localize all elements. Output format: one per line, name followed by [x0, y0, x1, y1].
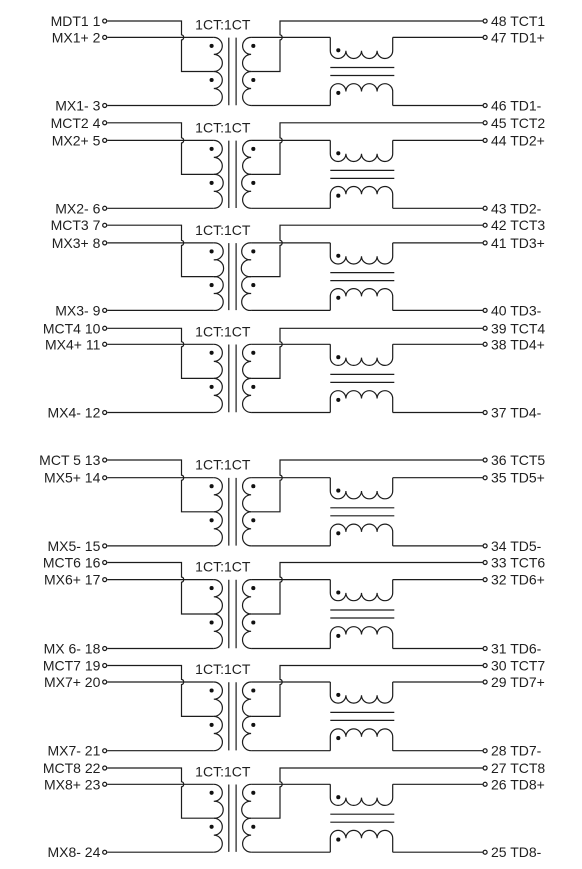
polarity dot secondary upper: [251, 147, 255, 151]
polarity dot secondary upper: [251, 688, 255, 692]
svg-text:33 TCT6: 33 TCT6: [491, 555, 545, 571]
wire pin 12 to primary winding end: [107, 412, 214, 414]
wire choke lower to pin 28: [393, 750, 483, 752]
transformer T4 secondary winding upper half: [243, 344, 252, 378]
choke L4 lower winding: [330, 391, 392, 413]
polarity dot choke lower: [336, 194, 340, 198]
transformer T2 secondary winding lower half: [242, 174, 251, 208]
svg-text:47 TD1+: 47 TD1+: [491, 29, 545, 45]
terminal pin 4: [103, 121, 107, 125]
wire secondary top to choke upper winding: [251, 579, 330, 581]
svg-text:1CT:1CT: 1CT:1CT: [195, 119, 251, 135]
transformer T8 core: [229, 785, 236, 852]
svg-text:1CT:1CT: 1CT:1CT: [195, 661, 251, 677]
choke L1 core: [330, 68, 394, 76]
polarity dot secondary lower: [251, 283, 255, 287]
transformer T2 secondary winding upper half: [243, 140, 252, 174]
wire secondary bottom to choke lower winding: [251, 207, 330, 209]
transformer T3 primary winding lower half: [214, 277, 223, 311]
polarity dot primary lower: [210, 283, 214, 287]
wire pin 16 to primary center tap (hops over pin 17 wire): [107, 563, 214, 615]
wire choke lower to pin 43: [393, 207, 483, 209]
wire pin 7 to primary center tap (hops over pin 8 wire): [107, 225, 214, 276]
terminal pin 36: [483, 458, 487, 462]
polarity dot choke lower: [336, 296, 340, 300]
polarity dot choke upper: [336, 795, 340, 799]
wire pin 9 to primary winding end: [107, 309, 214, 311]
wire secondary center tap to pin 48 (hops over TD+ wire): [251, 21, 482, 72]
svg-text:MCT 5 13: MCT 5 13: [39, 452, 100, 468]
svg-text:44 TD2+: 44 TD2+: [491, 132, 545, 148]
polarity dot primary upper: [210, 791, 214, 795]
svg-text:38 TD4+: 38 TD4+: [491, 336, 545, 352]
transformer T4 core: [229, 345, 236, 413]
polarity dot choke upper: [336, 48, 340, 52]
transformer T2 primary winding lower half: [214, 174, 223, 208]
svg-text:29 TD7+: 29 TD7+: [491, 674, 545, 690]
svg-text:MX8+ 23: MX8+ 23: [44, 776, 101, 792]
svg-text:MX7+ 20: MX7+ 20: [44, 674, 101, 690]
wire secondary center tap to pin 42 (hops over TD+ wire): [251, 225, 482, 276]
polarity dot secondary lower: [251, 620, 255, 624]
transformer T7 core: [229, 682, 236, 750]
svg-text:MX6+ 17: MX6+ 17: [44, 572, 101, 588]
transformer T5 primary winding lower half: [214, 512, 223, 546]
polarity dot secondary upper: [251, 351, 255, 355]
choke L3 lower winding: [330, 289, 392, 311]
svg-text:48 TCT1: 48 TCT1: [491, 13, 545, 29]
terminal pin 25: [483, 850, 487, 854]
polarity dot primary lower: [210, 385, 214, 389]
wire secondary center tap to pin 27 (hops over TD+ wire): [251, 768, 482, 818]
wire pin 14 to primary winding start: [107, 477, 214, 479]
wire secondary top to choke upper winding: [251, 36, 330, 38]
svg-text:MDT1 1: MDT1 1: [51, 13, 101, 29]
svg-text:1CT:1CT: 1CT:1CT: [195, 16, 251, 32]
wire secondary bottom to choke lower winding: [251, 851, 330, 853]
wire secondary top to choke upper winding: [251, 139, 330, 141]
polarity dot choke lower: [336, 634, 340, 638]
transformer T4 primary winding upper half: [214, 344, 223, 378]
transformer T7 secondary winding upper half: [242, 682, 251, 716]
wire pin 22 to primary center tap (hops over pin 23 wire): [107, 768, 214, 818]
polarity dot secondary lower: [251, 385, 255, 389]
wire choke upper to pin 38: [393, 343, 483, 345]
polarity dot secondary lower: [251, 518, 255, 522]
wire secondary bottom to choke lower winding: [251, 309, 330, 311]
wire pin 10 to primary center tap (hops over pin 11 wire): [107, 328, 214, 378]
polarity dot choke lower: [336, 736, 340, 740]
polarity dot choke upper: [336, 355, 340, 359]
transformer T2 primary winding upper half: [214, 140, 223, 174]
terminal pin 15: [103, 544, 107, 548]
svg-text:31 TD6-: 31 TD6-: [491, 641, 542, 657]
wire secondary bottom to choke lower winding: [251, 648, 330, 650]
svg-text:1CT:1CT: 1CT:1CT: [195, 763, 251, 779]
transformer T5 secondary winding lower half: [243, 512, 252, 546]
svg-text:43 TD2-: 43 TD2-: [491, 200, 542, 216]
terminal pin 23: [103, 782, 107, 786]
wire choke upper to pin 35: [393, 477, 483, 479]
wire pin 2 to primary winding start: [107, 36, 214, 38]
terminal pin 8: [103, 241, 107, 245]
transformer T5 primary winding upper half: [214, 478, 223, 512]
transformer T7 primary winding upper half: [214, 682, 223, 716]
svg-text:42 TCT3: 42 TCT3: [491, 217, 545, 233]
wire pin 6 to primary winding end: [107, 207, 214, 209]
terminal pin 12: [103, 411, 107, 415]
wire pin 24 to primary winding end: [107, 851, 214, 853]
wire choke upper to pin 26: [393, 783, 483, 785]
svg-text:1CT:1CT: 1CT:1CT: [195, 222, 251, 238]
polarity dot secondary upper: [251, 249, 255, 253]
wire secondary center tap to pin 33 (hops over TD+ wire): [251, 563, 482, 615]
wire secondary bottom to choke lower winding: [251, 105, 330, 107]
transformer T6 primary winding upper half: [214, 580, 223, 614]
choke L1 upper winding: [330, 37, 392, 58]
wire pin 5 to primary winding start: [107, 139, 214, 141]
polarity dot secondary lower: [251, 78, 255, 82]
polarity dot primary upper: [210, 688, 214, 692]
terminal pin 5: [103, 138, 107, 142]
wire pin 3 to primary winding end: [107, 105, 214, 107]
polarity dot choke upper: [336, 151, 340, 155]
wire choke lower to pin 37: [393, 412, 483, 414]
terminal pin 27: [483, 766, 487, 770]
terminal pin 16: [103, 561, 107, 565]
polarity dot secondary upper: [251, 44, 255, 48]
terminal pin 44: [483, 138, 487, 142]
wire choke upper to pin 47: [393, 36, 483, 38]
polarity dot choke upper: [336, 489, 340, 493]
transformer T8 primary winding upper half: [214, 784, 223, 818]
terminal pin 30: [483, 664, 487, 668]
transformer T6 primary winding lower half: [214, 614, 223, 649]
svg-text:27 TCT8: 27 TCT8: [491, 760, 545, 776]
transformer T3 primary winding upper half: [214, 243, 224, 277]
terminal pin 10: [103, 326, 107, 330]
polarity dot primary lower: [210, 620, 214, 624]
transformer T5 secondary winding upper half: [243, 478, 252, 512]
svg-text:MX8- 24: MX8- 24: [47, 844, 100, 860]
wire pin 18 to primary winding end: [107, 648, 214, 650]
terminal pin 13: [103, 458, 107, 462]
wire secondary top to choke upper winding: [251, 242, 330, 244]
polarity dot primary lower: [210, 78, 214, 82]
polarity dot secondary lower: [251, 723, 255, 727]
wire pin 17 to primary winding start: [107, 579, 214, 581]
terminal pin 47: [483, 35, 487, 39]
terminal pin 19: [103, 664, 107, 668]
transformer T6 core: [229, 580, 236, 648]
svg-text:26 TD8+: 26 TD8+: [491, 776, 545, 792]
terminal pin 7: [103, 223, 107, 227]
transformer T2 core: [229, 141, 236, 208]
polarity dot secondary upper: [251, 586, 255, 590]
wire secondary center tap to pin 39 (hops over TD+ wire): [251, 328, 482, 378]
wire pin 19 to primary center tap (hops over pin 20 wire): [107, 666, 214, 717]
choke L2 core: [330, 170, 394, 178]
svg-text:1CT:1CT: 1CT:1CT: [195, 559, 251, 575]
choke L6 core: [330, 610, 394, 618]
terminal pin 28: [483, 749, 487, 753]
wire choke lower to pin 46: [393, 105, 483, 107]
choke L5 lower winding: [330, 524, 392, 546]
terminal pin 38: [483, 342, 487, 346]
transformer T4 primary winding lower half: [214, 378, 223, 412]
wire secondary center tap to pin 36 (hops over TD+ wire): [251, 460, 482, 512]
terminal pin 14: [103, 476, 107, 480]
polarity dot choke upper: [336, 693, 340, 697]
svg-text:MX 6- 18: MX 6- 18: [44, 641, 101, 657]
transformer T7 primary winding lower half: [214, 716, 223, 750]
svg-text:MX1- 3: MX1- 3: [55, 98, 100, 114]
polarity dot primary lower: [210, 825, 214, 829]
terminal pin 26: [483, 782, 487, 786]
wire pin 15 to primary winding end: [107, 545, 214, 547]
wire pin 4 to primary center tap (hops over pin 5 wire): [107, 123, 214, 175]
terminal pin 33: [483, 561, 487, 565]
svg-text:MX2- 6: MX2- 6: [55, 200, 100, 216]
terminal pin 39: [483, 326, 487, 330]
wire choke upper to pin 32: [393, 579, 483, 581]
choke L8 upper winding: [330, 784, 392, 805]
wire choke upper to pin 44: [393, 139, 483, 141]
terminal pin 32: [483, 578, 487, 582]
svg-text:40 TD3-: 40 TD3-: [491, 302, 542, 318]
wire choke upper to pin 29: [393, 681, 483, 683]
terminal pin 21: [103, 749, 107, 753]
terminal pin 42: [483, 223, 487, 227]
choke L5 upper winding: [330, 478, 392, 499]
polarity dot choke lower: [336, 398, 340, 402]
terminal pin 3: [103, 104, 107, 108]
polarity dot choke upper: [336, 254, 340, 258]
transformer T1 core: [229, 38, 236, 106]
wire pin 11 to primary winding start: [107, 343, 214, 345]
terminal pin 22: [103, 766, 107, 770]
choke L2 upper winding: [330, 140, 392, 161]
svg-text:MX1+ 2: MX1+ 2: [52, 29, 101, 45]
terminal pin 20: [103, 680, 107, 684]
terminal pin 31: [483, 647, 487, 651]
choke L5 core: [330, 508, 394, 516]
choke L7 core: [330, 712, 394, 720]
svg-text:45 TCT2: 45 TCT2: [491, 115, 545, 131]
wire secondary top to choke upper winding: [251, 681, 330, 683]
wire choke lower to pin 31: [393, 648, 483, 650]
svg-text:MX5+ 14: MX5+ 14: [44, 470, 101, 486]
choke L4 core: [330, 374, 394, 382]
wire secondary center tap to pin 45 (hops over TD+ wire): [251, 123, 482, 175]
transformer T6 secondary winding lower half: [242, 614, 251, 649]
choke L2 lower winding: [330, 186, 392, 208]
terminal pin 45: [483, 121, 487, 125]
terminal pin 34: [483, 544, 487, 548]
svg-text:35 TD5+: 35 TD5+: [491, 470, 545, 486]
svg-text:MX4+ 11: MX4+ 11: [45, 336, 101, 352]
svg-text:MX5- 15: MX5- 15: [47, 538, 100, 554]
transformer T8 secondary winding upper half: [242, 784, 251, 818]
polarity dot secondary lower: [251, 181, 255, 185]
transformer T1 secondary winding lower half: [243, 72, 252, 106]
svg-text:36 TCT5: 36 TCT5: [491, 452, 545, 468]
svg-text:MX3- 9: MX3- 9: [55, 302, 100, 318]
transformer T3 core: [229, 243, 236, 310]
svg-text:39 TCT4: 39 TCT4: [491, 320, 545, 336]
wire choke upper to pin 41: [393, 242, 483, 244]
terminal pin 43: [483, 206, 487, 210]
svg-text:41 TD3+: 41 TD3+: [491, 235, 545, 251]
terminal pin 6: [103, 206, 107, 210]
wire secondary center tap to pin 30 (hops over TD+ wire): [251, 666, 482, 717]
transformer T1 primary winding upper half: [214, 37, 223, 71]
transformer T8 secondary winding lower half: [243, 818, 252, 852]
terminal pin 40: [483, 308, 487, 312]
polarity dot primary lower: [210, 518, 214, 522]
terminal pin 46: [483, 104, 487, 108]
terminal pin 24: [103, 850, 107, 854]
polarity dot primary upper: [210, 351, 214, 355]
svg-text:MX3+ 8: MX3+ 8: [52, 235, 101, 251]
svg-text:MX4- 12: MX4- 12: [47, 405, 100, 421]
choke L7 upper winding: [330, 682, 392, 703]
wire secondary bottom to choke lower winding: [251, 750, 330, 752]
wire pin 1 to primary center tap (hops over pin 2 wire): [107, 21, 214, 72]
terminal pin 35: [483, 476, 487, 480]
wire pin 21 to primary winding end: [107, 750, 214, 752]
polarity dot secondary upper: [251, 484, 255, 488]
choke L8 core: [330, 814, 394, 822]
svg-text:MCT6 16: MCT6 16: [43, 555, 101, 571]
svg-text:46 TD1-: 46 TD1-: [491, 98, 542, 114]
terminal pin 17: [103, 578, 107, 582]
transformer T7 secondary winding lower half: [242, 716, 251, 750]
polarity dot secondary upper: [251, 791, 255, 795]
choke L1 lower winding: [330, 84, 392, 106]
svg-text:37 TD4-: 37 TD4-: [491, 405, 542, 421]
polarity dot primary upper: [210, 44, 214, 48]
wire choke lower to pin 25: [393, 851, 483, 853]
svg-text:MX7- 21: MX7- 21: [47, 743, 100, 759]
terminal pin 18: [103, 647, 107, 651]
svg-text:MCT8 22: MCT8 22: [43, 760, 101, 776]
terminal pin 9: [103, 308, 107, 312]
svg-text:MCT7 19: MCT7 19: [43, 658, 101, 674]
wire pin 8 to primary winding start: [107, 242, 214, 244]
polarity dot primary lower: [210, 181, 214, 185]
transformer T6 secondary winding upper half: [242, 580, 251, 614]
choke L3 upper winding: [330, 243, 392, 264]
wire pin 20 to primary winding start: [107, 681, 214, 683]
svg-text:32 TD6+: 32 TD6+: [491, 572, 545, 588]
polarity dot secondary lower: [251, 825, 255, 829]
transformer T8 primary winding lower half: [214, 818, 223, 852]
svg-text:MX2+ 5: MX2+ 5: [52, 132, 101, 148]
svg-text:MCT4 10: MCT4 10: [43, 320, 101, 336]
wire choke lower to pin 40: [393, 309, 483, 311]
svg-text:1CT:1CT: 1CT:1CT: [195, 457, 251, 473]
terminal pin 2: [103, 35, 107, 39]
wire secondary top to choke upper winding: [251, 477, 330, 479]
svg-text:MCT2 4: MCT2 4: [51, 115, 101, 131]
choke L6 upper winding: [330, 580, 392, 601]
svg-text:1CT:1CT: 1CT:1CT: [195, 323, 251, 339]
terminal pin 1: [103, 19, 107, 23]
svg-text:30 TCT7: 30 TCT7: [491, 658, 545, 674]
polarity dot primary upper: [210, 484, 214, 488]
polarity dot primary upper: [210, 147, 214, 151]
terminal pin 48: [483, 19, 487, 23]
transformer T1 primary winding lower half: [214, 72, 223, 106]
svg-text:28 TD7-: 28 TD7-: [491, 743, 542, 759]
choke L3 core: [330, 273, 394, 281]
transformer T5 core: [229, 478, 236, 546]
wire pin 13 to primary center tap (hops over pin 14 wire): [107, 460, 214, 512]
polarity dot choke lower: [336, 91, 340, 95]
choke L7 lower winding: [330, 729, 392, 751]
polarity dot choke lower: [336, 531, 340, 535]
terminal pin 29: [483, 680, 487, 684]
polarity dot primary upper: [210, 586, 214, 590]
wire secondary bottom to choke lower winding: [251, 545, 330, 547]
polarity dot primary lower: [210, 723, 214, 727]
wire secondary bottom to choke lower winding: [251, 412, 330, 414]
polarity dot choke lower: [336, 838, 340, 842]
terminal pin 37: [483, 411, 487, 415]
transformer T3 secondary winding upper half: [241, 243, 251, 277]
polarity dot primary upper: [210, 249, 214, 253]
wire secondary top to choke upper winding: [251, 343, 330, 345]
svg-text:25 TD8-: 25 TD8-: [491, 844, 542, 860]
choke L4 upper winding: [330, 344, 392, 365]
svg-text:34 TD5-: 34 TD5-: [491, 538, 542, 554]
transformer T1 secondary winding upper half: [243, 37, 252, 71]
svg-text:MCT3 7: MCT3 7: [51, 217, 101, 233]
wire choke lower to pin 34: [393, 545, 483, 547]
terminal pin 11: [103, 342, 107, 346]
transformer T3 secondary winding lower half: [242, 277, 251, 311]
terminal pin 41: [483, 241, 487, 245]
polarity dot choke upper: [336, 590, 340, 594]
transformer T4 secondary winding lower half: [243, 378, 252, 412]
choke L6 lower winding: [330, 627, 392, 649]
wire pin 23 to primary winding start: [107, 783, 214, 785]
wire secondary top to choke upper winding: [251, 783, 330, 785]
choke L8 lower winding: [330, 830, 392, 852]
